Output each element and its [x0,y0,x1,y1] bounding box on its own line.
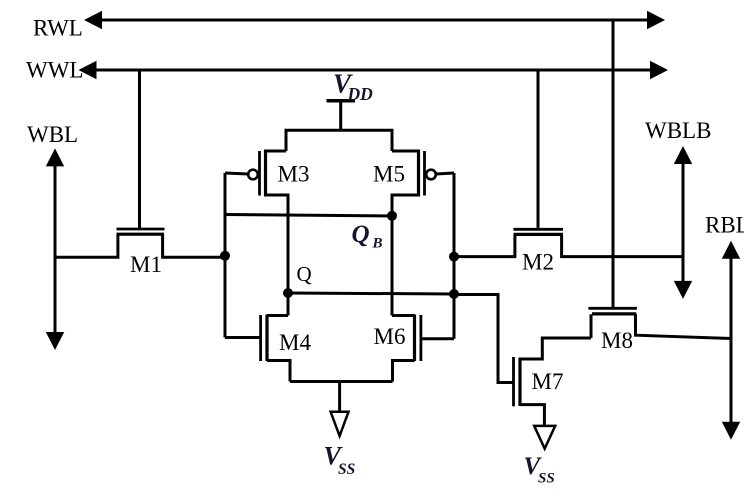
wire Q horizontal [288,293,454,294]
svg-text:Q: Q [297,262,312,286]
node WBLB bottom arrowhead [674,281,692,299]
svg-text:RBL: RBL [705,213,744,238]
svg-text:M5: M5 [373,162,405,187]
wire WBLB vertical line [682,162,685,283]
node WBL bottom arrowhead [46,332,64,350]
node RWL right arrowhead [647,11,665,29]
wire VDD rail to M3/M5 sources [286,130,392,151]
ground VSS open arrow (right) [534,426,555,449]
svg-text:SS: SS [538,471,555,487]
wire Q node to M7 gate [454,295,513,383]
svg-text:M4: M4 [279,330,311,355]
wire VSS tap [338,382,341,412]
junction dot M1-to-gates [220,251,230,261]
wire RWL to M8 gate [612,20,615,307]
wire RBL vertical line [730,256,733,424]
node WWL right arrowhead [650,61,668,79]
svg-text:M6: M6 [374,324,406,349]
svg-text:WWL: WWL [26,58,83,83]
node RBL top arrowhead [722,241,740,259]
wire left gate vertical (M3/M4 gates) [224,173,227,338]
node RBL bottom arrowhead [722,422,740,440]
svg-text:SS: SS [338,461,355,478]
node WBL top arrowhead [46,148,64,166]
svg-text:WBL: WBL [27,122,78,147]
transistor M4 (NMOS) [259,315,262,361]
svg-text:DD: DD [347,84,374,104]
wire M5 drain down to node QB and M6 drain [392,195,420,316]
svg-text:M2: M2 [522,250,554,275]
svg-text:M7: M7 [532,369,564,394]
svg-text:WBLB: WBLB [645,118,711,143]
junction Q node dot [283,288,293,298]
transistor M3 (PMOS) [264,150,286,153]
svg-text:M1: M1 [130,252,162,277]
wire QB horizontal (cross-couple to M3/M4 gates) [225,215,392,217]
wire right gate vertical (M5/M6 gates) [453,173,456,339]
wire M3 drain down to node Q [264,195,288,316]
transistor M6 (NMOS) [413,315,416,362]
wire M4/M6 common source rail [290,380,393,383]
transistor M2 (NMOS access, gate from WWL) [537,70,540,228]
svg-text:Q: Q [352,221,370,248]
ground VSS open arrow (left) [331,412,349,436]
transistor M1 (NMOS access, gate from WWL) [138,70,141,228]
junction dot Q wire [449,289,459,299]
node WBLB top arrowhead [674,146,692,164]
junction dot M2 wire [449,252,459,262]
node RWL left arrowhead [84,11,102,29]
svg-text:B: B [372,236,383,252]
wire WWL horizontal line [82,69,664,72]
svg-text:RWL: RWL [33,16,83,41]
wire RWL horizontal line [90,19,661,22]
transistor M5 (PMOS) [392,150,420,153]
node WWL left arrowhead [79,61,97,79]
svg-text:M8: M8 [601,328,633,353]
transistor M7 (NMOS read driver) [512,357,515,406]
wire WBL vertical line [54,165,57,334]
transistor M8 (NMOS read access) [588,307,637,310]
junction QB node dot [387,211,397,221]
svg-text:M3: M3 [278,162,310,187]
power VDD symbol [327,99,356,103]
